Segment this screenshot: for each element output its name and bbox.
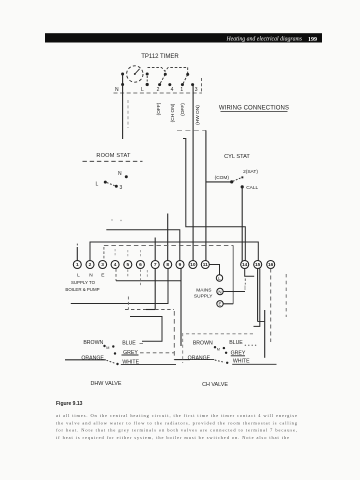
body text [56,413,298,441]
svg-text:4: 4 [171,87,174,93]
terminal 15 [254,261,262,269]
svg-text:3: 3 [101,262,104,268]
wire dashed below terminal 4 [115,269,117,281]
faint stub above terminal 4 [114,249,116,257]
svg-text:SUPPLY TO: SUPPLY TO [71,280,96,285]
room stat terminal 3 [115,185,118,188]
wire earth dashed run to E circle [104,245,233,303]
svg-text:M: M [106,346,109,350]
svg-text:L: L [141,87,144,93]
DHW valve motor M [103,345,105,347]
svg-text:M: M [217,347,220,351]
stub below terminal 5 [127,270,129,278]
svg-text:(HW ON): (HW ON) [195,105,201,125]
svg-text:CALL: CALL [246,185,258,191]
svg-text:(OFF): (OFF) [180,103,186,116]
wire stub strip 7 [154,238,156,261]
svg-text:Heating and electrical diagram: Heating and electrical diagrams [225,37,302,43]
wire faint dashed below timer [127,100,129,128]
rotated terminal function labels [156,102,201,125]
svg-text:9: 9 [179,262,182,268]
svg-text:1: 1 [180,87,183,93]
CH valve switch lever [215,360,225,362]
svg-text:(COM): (COM) [215,175,230,181]
CH valve motor M [214,346,216,348]
svg-text:N: N [218,289,221,294]
timer terminal L [141,73,149,94]
wire N down from timer [122,85,124,140]
wire mains E [223,303,233,305]
wire CALL down to strip 14 [241,187,243,261]
DHW valve wire WHITE [116,363,118,365]
wire N to strips 2 and 15 [90,242,258,261]
terminal 1 [73,261,81,269]
mains circle N [217,288,223,294]
CH valve dashed enclosure (partial) [183,333,253,363]
timer switch S1 (CH) [157,73,174,94]
mains circle L [216,275,222,281]
svg-text:6: 6 [139,262,142,268]
svg-text:8: 8 [166,262,169,268]
wire riser to CH grey [264,310,266,358]
svg-text:ROOM STAT: ROOM STAT [96,153,131,159]
faint stub above terminal 5 [127,250,129,257]
WIRING CONNECTIONS heading [219,106,289,112]
svg-text:N: N [115,87,119,93]
ROOM STAT label [83,153,143,191]
timer enclosure (dashed, partial) [114,78,203,93]
terminal 9 [176,261,184,269]
terminal 6 [136,261,144,269]
svg-text:BLUE: BLUE [122,340,136,346]
cyl stat switch lever [233,178,241,182]
svg-text:5: 5 [126,262,129,268]
CH valve wire WHITE [226,362,228,364]
wire 11 to mains L [209,265,219,275]
timer internal link bar (dashed) [148,67,188,73]
svg-text:3: 3 [120,185,123,191]
wire to strip 9 [106,230,180,261]
svg-text:WIRING CONNECTIONS: WIRING CONNECTIONS [219,106,289,112]
svg-text:Figure 9.13: Figure 9.13 [56,401,83,407]
svg-text:CH VALVE: CH VALVE [202,382,228,388]
wire dashed row at 309.5 [125,309,146,311]
svg-text:10: 10 [190,262,196,268]
stub below terminal 6 [139,270,141,287]
timer motor M1 (clock) [127,66,143,82]
wire 7 down [154,269,156,310]
CH valve wire GREY [225,352,227,354]
wire mains N [223,291,245,293]
svg-text:MAINS: MAINS [196,288,211,294]
svg-text:3: 3 [195,87,198,93]
wire elbow below 14 [245,269,255,277]
svg-text:WHITE: WHITE [233,358,250,364]
wire to strip 8 [167,214,169,261]
wire branch to cyl stat COM [206,181,231,183]
svg-text:2: 2 [157,87,160,93]
terminal 11 [201,261,209,269]
wire timer 1 elbow down [183,139,245,261]
wire grey dashed to riser [140,352,174,354]
wire row to CH valve drop [116,280,181,282]
terminal strip circles [73,261,274,269]
wire below 9 down [180,269,182,347]
terminal 10 [189,261,197,269]
wire 8 to DHW brown row [71,269,168,304]
room stat switch lever [107,183,115,186]
svg-text:N: N [118,171,122,177]
svg-text:2(SAT): 2(SAT) [243,169,258,175]
svg-text:15: 15 [255,262,261,268]
svg-text:199: 199 [308,37,317,43]
timer terminal N [115,73,124,94]
svg-text:CYL STAT: CYL STAT [224,154,250,160]
terminal 16 [267,261,275,269]
svg-text:14: 14 [242,262,248,268]
specks [111,219,112,220]
CYL STAT label [215,154,259,261]
wire grey dashed riser to CH orange [173,311,175,360]
wire tee to cyl stat feed [177,129,206,131]
svg-text:2: 2 [89,262,92,268]
wire cyl stat feed down to strip 11 [205,130,207,260]
cyl stat terminal CALL [241,185,244,188]
wire to DHW blue [130,317,162,342]
stub above terminal 1 [76,244,78,261]
wire HW (terminal 3) down to strip 10 [192,85,194,261]
terminal 2 [86,261,94,269]
svg-text:ORANGE: ORANGE [81,355,104,361]
svg-text:16: 16 [268,262,274,268]
wire dashed stub [127,297,129,310]
CH valve wire BROWN [185,340,277,388]
svg-text:(OFF): (OFF) [156,102,162,115]
svg-text:E: E [101,273,104,279]
mains circle E [217,301,223,307]
terminal 8 [164,261,172,269]
faint stub above terminal 6 [139,250,141,257]
header bar [45,33,322,43]
wire 16 dashed down to CH blue [270,269,272,343]
terminal 4 [111,261,119,269]
svg-text:L: L [96,181,99,187]
terminal 3 [99,261,107,269]
svg-text:1: 1 [76,262,79,268]
wire dashed fragment [146,270,148,279]
timer switch S2 (HW) [180,73,197,93]
DHW valve wire GREY [114,352,116,354]
svg-text:TP112 TIMER: TP112 TIMER [141,54,179,60]
svg-text:SUPPLY: SUPPLY [194,293,213,299]
svg-text:11: 11 [203,262,208,268]
DHW valve wire BROWN [65,340,176,387]
svg-text:BOILER & PUMP: BOILER & PUMP [65,287,99,292]
svg-text:E: E [219,302,222,307]
svg-text:7: 7 [154,262,157,268]
DHW valve switch lever [107,360,116,363]
svg-text:ORANGE: ORANGE [188,355,211,361]
svg-text:BLUE: BLUE [229,340,243,346]
terminal 14 [241,261,249,269]
svg-text:N: N [89,273,93,279]
svg-text:L: L [77,273,80,279]
svg-text:BROWN: BROWN [193,341,213,347]
dashed column right [285,274,287,317]
wires below 15 [257,269,259,322]
strip labels L N E [77,273,104,279]
svg-text:4: 4 [114,262,117,268]
svg-text:BROWN: BROWN [83,340,103,346]
svg-text:DHW VALVE: DHW VALVE [91,381,122,387]
terminal 7 [151,261,159,269]
svg-text:(CH ON): (CH ON) [170,103,176,122]
terminal 5 [124,261,132,269]
